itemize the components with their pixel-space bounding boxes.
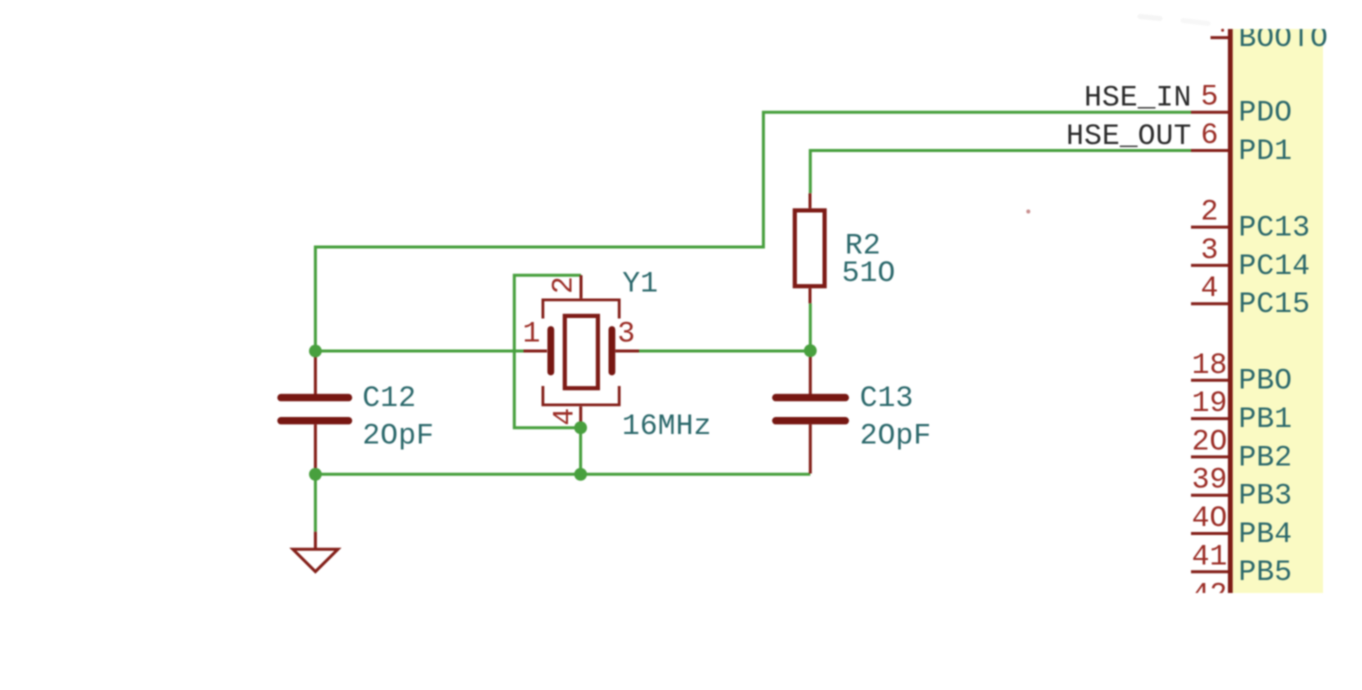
pin 2 PC13 [1191,195,1310,245]
svg-text:PC14: PC14 [1239,249,1311,283]
svg-text:16MHz: 16MHz [622,409,712,443]
pin 6 PD1 [1191,118,1292,168]
svg-text:6: 6 [1201,118,1219,152]
svg-text:HSE_OUT: HSE_OUT [1066,119,1191,153]
crystal body rectangle [565,316,598,388]
pin 42 (clipped at bottom) [1192,578,1227,612]
svg-text:4O: 4O [1192,501,1227,535]
pin BOOT0 (clipped at top) [1211,21,1329,55]
svg-text:19: 19 [1192,386,1227,420]
wire crystal case pins 2-4 loop [514,275,581,428]
junction node crystal ground on bus [574,468,587,481]
capacitor C12 [281,351,349,474]
svg-text:PBO: PBO [1239,364,1293,398]
svg-text:Y1: Y1 [622,266,658,300]
pin 4 (bottom) [579,406,582,427]
pin 2 (top) [580,275,583,298]
IC U1 body (partial, clipped at top and bottom) [1230,29,1324,593]
wire crystal pin 3 to R2/C13 node [639,350,810,353]
svg-text:HSE_IN: HSE_IN [1084,81,1191,115]
right electrode [609,330,616,373]
svg-text:PB4: PB4 [1239,517,1293,551]
white crop overlay top-right [1180,0,1362,29]
pin 19 PB1 [1191,386,1292,436]
svg-text:PB3: PB3 [1239,479,1293,513]
svg-text:PB2: PB2 [1239,440,1293,474]
wire ground bus [315,473,810,476]
svg-text:C12: C12 [362,381,416,415]
resistor R2 [795,193,825,303]
svg-text:2: 2 [547,276,581,294]
junction node at C12 top / XTAL1 [309,345,322,358]
wire HSE_OUT net: from pin PD1 to R2 top [810,151,1191,194]
svg-text:51O: 51O [842,256,896,290]
svg-text:2OpF: 2OpF [362,418,434,452]
pin 3 (right) [615,350,639,353]
svg-text:18: 18 [1192,348,1227,382]
case outline top staple [543,300,619,319]
crystal Y1 [524,275,640,428]
pin 1 (left) [524,350,548,353]
svg-text:PDO: PDO [1239,96,1293,130]
wire node XTAL1 to crystal pin 1 [315,350,523,353]
pin 4 PC15 [1191,271,1310,321]
pin 39 PB3 [1191,463,1292,513]
case outline bottom staple [543,386,619,405]
white crop overlay bottom-right [1180,593,1362,690]
ground symbol GND [293,532,338,572]
svg-text:PD1: PD1 [1239,134,1293,168]
capacitor C13 [776,351,846,474]
svg-text:PB1: PB1 [1239,402,1293,436]
wire R2 bottom to node [809,303,812,350]
pin 40 PB4 [1191,501,1292,551]
left electrode [547,330,554,373]
artifact: stray red speck [1026,210,1030,214]
junction node at R2 bottom / C13 top [804,344,817,357]
wire crystal pin 4 to ground bus [579,428,582,475]
svg-text:3: 3 [1201,233,1219,267]
artifact: clipped pin number tip above BOOT0 [1221,29,1224,32]
artifact: faint smudge streak [1140,17,1160,19]
svg-text:4: 4 [1201,271,1219,305]
svg-text:39: 39 [1192,463,1227,497]
svg-text:C13: C13 [860,381,914,415]
pin 41 PB5 [1191,539,1292,589]
svg-text:PC13: PC13 [1239,211,1311,245]
svg-text:2OpF: 2OpF [860,418,932,452]
svg-text:2O: 2O [1192,424,1227,458]
svg-text:3: 3 [617,317,635,351]
svg-text:1: 1 [523,317,541,351]
pin 3 PC14 [1191,233,1310,283]
svg-text:2: 2 [1201,195,1219,229]
junction node at crystal pin 4 [574,421,587,434]
wire HSE_IN net: from pin PD0 to C12/crystal node [315,112,1191,351]
svg-text:41: 41 [1192,539,1227,573]
svg-text:PB5: PB5 [1239,555,1293,589]
pin 20 PB2 [1191,424,1292,474]
pin 18 PB0 [1191,348,1292,398]
junction node C12 bottom on bus [309,468,322,481]
svg-text:5: 5 [1201,80,1219,114]
svg-text:PC15: PC15 [1239,287,1311,321]
wire C12 bottom to ground symbol [314,474,317,531]
pin 5 PD0 [1191,80,1292,130]
